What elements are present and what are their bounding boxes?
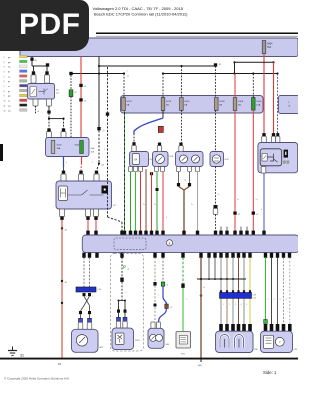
relay 2 bottom pins bbox=[59, 209, 64, 217]
svg-text:6: 6 bbox=[4, 81, 5, 83]
black wire ECU to pump (x277.5) bbox=[277, 257, 279, 324]
svg-text:1: 1 bbox=[158, 295, 159, 297]
svg-text:3: 3 bbox=[235, 304, 236, 306]
sensor A27 body bbox=[72, 329, 99, 352]
svg-text:43: 43 bbox=[35, 60, 37, 62]
svg-text:3: 3 bbox=[280, 299, 281, 301]
svg-text:2: 2 bbox=[4, 62, 5, 64]
black wire bar A to relay 2 (x99) bbox=[98, 57, 100, 128]
red wire bar A to fuse box SB (x81) bbox=[80, 57, 82, 138]
svg-text:8: 8 bbox=[4, 91, 5, 93]
svg-text:Side: 1: Side: 1 bbox=[263, 370, 277, 375]
ECU top terminal row bbox=[86, 231, 89, 236]
sensor G70 bottom pins bbox=[177, 167, 181, 172]
relay 3 top terminals bbox=[262, 133, 265, 136]
svg-text:47: 47 bbox=[238, 214, 240, 216]
injector junction line bbox=[197, 278, 246, 280]
node line 1 (horizontal) bbox=[99, 65, 216, 67]
fuel pump sensor G6 body bbox=[130, 152, 149, 167]
wire below K1 pin 2 to fuse box feed bbox=[48, 106, 50, 111]
relay K1 feed jumper bbox=[32, 65, 48, 67]
drop wire x163 bbox=[162, 74, 164, 98]
green wire G28 to ECU (x157) bbox=[156, 172, 158, 231]
left edge tab bbox=[0, 144, 3, 161]
blue jumper wire fuse S216 to pump sensor bbox=[162, 110, 164, 118]
short stub wires above ECU bbox=[220, 227, 222, 231]
inline connector red on blue wire bbox=[158, 126, 163, 132]
svg-text:S108: S108 bbox=[219, 101, 225, 103]
svg-text:4: 4 bbox=[126, 292, 127, 294]
relay K1 top pins bbox=[31, 75, 36, 83]
svg-text:S7: S7 bbox=[75, 92, 77, 94]
svg-text:C39: C39 bbox=[253, 295, 256, 297]
svg-text:43: 43 bbox=[219, 64, 221, 66]
svg-text:2: 2 bbox=[127, 71, 128, 73]
orange wire relay 2 to ground (x62) bbox=[61, 220, 63, 229]
dashed wire node line 2 to relay 3 (x277.5) bbox=[277, 74, 279, 134]
wire ECU to compressor clutch bbox=[121, 257, 123, 277]
sensor G70 body (two gauges) bbox=[176, 152, 204, 167]
fuse S123 5A bbox=[122, 98, 126, 111]
svg-text:2: 2 bbox=[274, 299, 275, 301]
injector terminal row bbox=[219, 324, 223, 331]
svg-text:9: 9 bbox=[4, 96, 5, 98]
brown wire G70 to ECU (x184) bbox=[179, 186, 185, 190]
svg-text:1: 1 bbox=[4, 57, 5, 59]
drop wire x215.5 bbox=[215, 66, 217, 98]
svg-text:sw: sw bbox=[8, 105, 11, 107]
svg-text:4: 4 bbox=[104, 149, 105, 151]
ECU main body bar bbox=[82, 235, 299, 253]
svg-text:Volkswagen 2.0 TDI - CAAC - 7E: Volkswagen 2.0 TDI - CAAC - 7E/ 7F - 200… bbox=[93, 6, 184, 11]
relay 2 top terminals bbox=[62, 171, 65, 174]
red wire fuse box to relay 2 bbox=[81, 157, 83, 164]
inline connector brown on blue wire bbox=[165, 304, 169, 309]
twisted pair symbol bbox=[81, 296, 90, 311]
red wire relay 2 to ECU pin (x88) bbox=[87, 220, 89, 231]
blue wire relay 3 to ECU bbox=[263, 173, 265, 231]
svg-text:5: 5 bbox=[4, 76, 5, 78]
svg-text:2x: 2x bbox=[154, 204, 156, 206]
svg-text:2: 2 bbox=[92, 162, 93, 164]
dashed wire ECU to pump (x283.5) bbox=[283, 257, 285, 324]
svg-text:43: 43 bbox=[84, 86, 86, 88]
wire G42 to ECU with connector bbox=[215, 167, 217, 206]
ECU bottom terminal row bbox=[82, 253, 85, 258]
svg-text:1: 1 bbox=[268, 299, 269, 301]
wire colour legend bbox=[4, 55, 28, 112]
relay 2 top pins bbox=[61, 174, 66, 181]
heater element E94 body bbox=[176, 332, 191, 349]
svg-text:=: = bbox=[279, 341, 281, 345]
svg-text:C4: C4 bbox=[166, 285, 168, 287]
svg-text:© Copyright 2020 Hella Gutmann: © Copyright 2020 Hella Gutmann Solutions… bbox=[4, 377, 69, 381]
svg-text:16: 16 bbox=[203, 287, 205, 289]
fuse S131 30A bbox=[51, 141, 55, 154]
sensor G42 body bbox=[210, 152, 224, 167]
svg-text:(61): (61) bbox=[198, 365, 202, 367]
svg-text:10: 10 bbox=[4, 101, 6, 103]
fuse box SB top terminals bbox=[47, 128, 50, 131]
node line 3 (horizontal) bbox=[234, 62, 236, 73]
terminals below blue connector block bbox=[83, 293, 86, 296]
sensor G70 top pin bbox=[179, 143, 182, 146]
brown wire G6 to ECU (x146) bbox=[145, 169, 147, 231]
relay 2 body J17 bbox=[56, 181, 112, 209]
svg-text:2: 2 bbox=[229, 304, 230, 306]
power rail 30 (upper double line) bbox=[96, 32, 298, 34]
svg-text:T2: T2 bbox=[184, 180, 186, 182]
fuse box feed jumper bbox=[49, 118, 64, 120]
clutch feed jumper bbox=[119, 300, 126, 302]
svg-text:30A: 30A bbox=[57, 147, 61, 150]
svg-text:31: 31 bbox=[20, 354, 24, 358]
svg-text:2: 2 bbox=[92, 296, 93, 298]
svg-text:1: 1 bbox=[223, 304, 224, 306]
svg-text:C40: C40 bbox=[253, 298, 256, 300]
sensor A27 top terminals blue bbox=[79, 318, 83, 322]
sensor G86 body bbox=[148, 328, 164, 348]
green dashed wire fuse S123 to ECU (x124.5) bbox=[124, 110, 126, 231]
PDF badge overlay bbox=[0, 0, 89, 51]
fuse S216b 5A bbox=[180, 98, 184, 111]
svg-text:2: 2 bbox=[86, 296, 87, 298]
relay K1 terminals bbox=[32, 71, 35, 75]
twisted pair wires to sensor A27 bbox=[83, 257, 85, 287]
svg-text:4: 4 bbox=[261, 209, 262, 211]
red wire x253 green fuse to ECU bbox=[252, 110, 254, 231]
fuse bus bar B left segment bbox=[121, 96, 264, 114]
red wire relay 2 to ECU pin (x96) bbox=[95, 220, 97, 231]
fuse S216 5A bbox=[161, 98, 165, 111]
red wire G28 to ECU (x163) bbox=[162, 172, 164, 231]
dashed option group outline bbox=[111, 254, 144, 352]
svg-text:12: 12 bbox=[4, 110, 6, 112]
brown ground wire from ECU (x201) bbox=[200, 257, 202, 362]
green wire ECU to pump V54 (x265.5) bbox=[265, 257, 267, 319]
ground symbol bbox=[12, 347, 14, 351]
fuse box SB top pins bbox=[47, 132, 52, 138]
inline fuse green bbox=[69, 90, 73, 97]
svg-text:10A: 10A bbox=[256, 104, 260, 107]
svg-text:4: 4 bbox=[286, 299, 287, 301]
sensor A27 top pins bbox=[78, 322, 83, 329]
relay K1 feed stub from bar A bbox=[31, 57, 33, 67]
svg-text:P: P bbox=[123, 265, 126, 270]
red wire x235 from node line through bar B bbox=[234, 74, 236, 98]
wire ECU to G86 with green connector (x163) bbox=[162, 257, 164, 282]
fuse S404 70A in bar A bbox=[262, 41, 266, 54]
node line 2a (horizontal left) bbox=[71, 73, 124, 75]
dashed wire ECU to pump (x289.8) bbox=[289, 257, 291, 324]
svg-text:S102: S102 bbox=[256, 101, 262, 103]
svg-text:4: 4 bbox=[241, 304, 242, 306]
green wire G6 to ECU (x135.5) bbox=[135, 172, 137, 231]
ground bus line 31 bbox=[0, 358, 298, 360]
svg-text:2x: 2x bbox=[191, 204, 193, 206]
red wire to ECU (x151.5) bbox=[150, 172, 153, 175]
node line 2b (horizontal right) bbox=[163, 73, 278, 75]
svg-text:S131: S131 bbox=[57, 144, 63, 146]
fuse bus bar B right segment bbox=[279, 96, 300, 114]
svg-text:43: 43 bbox=[84, 100, 86, 102]
svg-text:43: 43 bbox=[127, 76, 129, 78]
blue connector block left bbox=[76, 287, 96, 292]
wire into pump sensor top bbox=[133, 134, 135, 143]
stub wire ECU to junction line (x209) bbox=[208, 257, 210, 279]
svg-text:2: 2 bbox=[186, 299, 187, 301]
svg-text:Bosch EDC 17CP20 Common rail (: Bosch EDC 17CP20 Common rail (11/2010-04… bbox=[94, 12, 188, 17]
pump terminal row bbox=[264, 324, 268, 331]
svg-text:3: 3 bbox=[4, 67, 5, 69]
fuse box SB body bbox=[46, 138, 90, 157]
fuse S102 green bbox=[252, 98, 256, 111]
blue wire fuse box to relay 2 bbox=[63, 157, 65, 168]
svg-text:S123: S123 bbox=[127, 101, 133, 103]
svg-text:gr: gr bbox=[8, 90, 10, 93]
drop to green fuse S102 bbox=[252, 74, 254, 98]
fuse S108 5A bbox=[215, 98, 219, 111]
injector bank body N30-N33 bbox=[216, 331, 254, 352]
black wire ECU to pump (x271.5) bbox=[271, 257, 273, 324]
svg-text:4: 4 bbox=[166, 217, 167, 219]
compressor clutch pins bbox=[116, 321, 120, 328]
tan wire ECU to G86 (x155) bbox=[154, 257, 156, 282]
svg-text:S404: S404 bbox=[267, 43, 273, 45]
sensor G28 top pin bbox=[158, 143, 161, 146]
sensor G28 bottom pins bbox=[155, 167, 159, 172]
injector harness wires bbox=[220, 257, 222, 292]
green wire ECU to heater E94 bbox=[182, 257, 184, 283]
svg-text:2x: 2x bbox=[237, 199, 239, 201]
svg-text:C5: C5 bbox=[170, 307, 172, 309]
fuse S109 5A bbox=[233, 98, 237, 111]
red wire node line 3 to relay 3 (x273.5) bbox=[273, 62, 275, 133]
sensor G28 body bbox=[153, 152, 169, 167]
svg-text:S109: S109 bbox=[238, 101, 244, 103]
svg-text:5: 5 bbox=[246, 304, 247, 306]
svg-text:2x: 2x bbox=[218, 194, 220, 196]
wire below K1 pin 1 bbox=[35, 106, 37, 114]
svg-text:7: 7 bbox=[4, 86, 5, 88]
pump V54 body bbox=[261, 331, 293, 352]
compressor clutch N421 body bbox=[112, 328, 134, 350]
relay 3 top pins bbox=[262, 136, 267, 142]
svg-text:2x: 2x bbox=[256, 199, 258, 201]
fuse S132 green bbox=[80, 141, 84, 154]
relay K1 body bbox=[28, 84, 55, 100]
relay 2 bottom terminals bbox=[60, 217, 63, 220]
fuse holder bus bar A (top) bbox=[20, 38, 298, 57]
svg-text:S216: S216 bbox=[184, 101, 190, 103]
long dashed wire to ECU (x107) bbox=[106, 113, 109, 116]
relay 3 body bbox=[258, 143, 298, 173]
red wire S404 to relay 3 (x264) bbox=[263, 53, 265, 133]
wire green-fused branch (x71) bbox=[70, 75, 72, 90]
svg-text:4: 4 bbox=[66, 162, 67, 164]
svg-text:70A: 70A bbox=[267, 46, 272, 49]
pump sensor bottom pins bbox=[129, 167, 133, 172]
blue connector bar injectors bbox=[220, 293, 252, 299]
ECU dashed connector outline bbox=[114, 238, 146, 250]
compressor clutch terminals blue bbox=[117, 317, 121, 321]
svg-text:C30: C30 bbox=[98, 289, 101, 291]
grey wire G70 to ECU (x197.5) bbox=[197, 172, 199, 231]
relay K1 bottom pins bbox=[33, 99, 38, 106]
svg-text:47: 47 bbox=[256, 214, 258, 216]
drop wire x181.5 bbox=[181, 66, 183, 98]
relay 3 bottom pin bbox=[261, 167, 266, 174]
ECU theta symbol bbox=[166, 240, 172, 246]
svg-text:4: 4 bbox=[4, 71, 5, 73]
svg-text:gr: gr bbox=[8, 80, 10, 83]
svg-text:S216: S216 bbox=[166, 101, 172, 103]
svg-text:11: 11 bbox=[4, 105, 6, 107]
red wire G6 to ECU (x140.5) bbox=[140, 172, 142, 231]
stub wire ECU to junction line (x215) bbox=[214, 257, 216, 279]
G70 pigtail wires to connector pair bbox=[178, 172, 180, 183]
svg-text:2x: 2x bbox=[143, 204, 145, 206]
green wire G6 to ECU (x130.5) bbox=[130, 172, 132, 231]
sensor G86 pins bbox=[151, 322, 155, 328]
wire S108 to G42 bbox=[215, 110, 217, 151]
terminals on clutch feed wires bbox=[117, 310, 120, 313]
drop wire x124 bbox=[123, 74, 125, 98]
svg-text:43: 43 bbox=[103, 131, 105, 133]
